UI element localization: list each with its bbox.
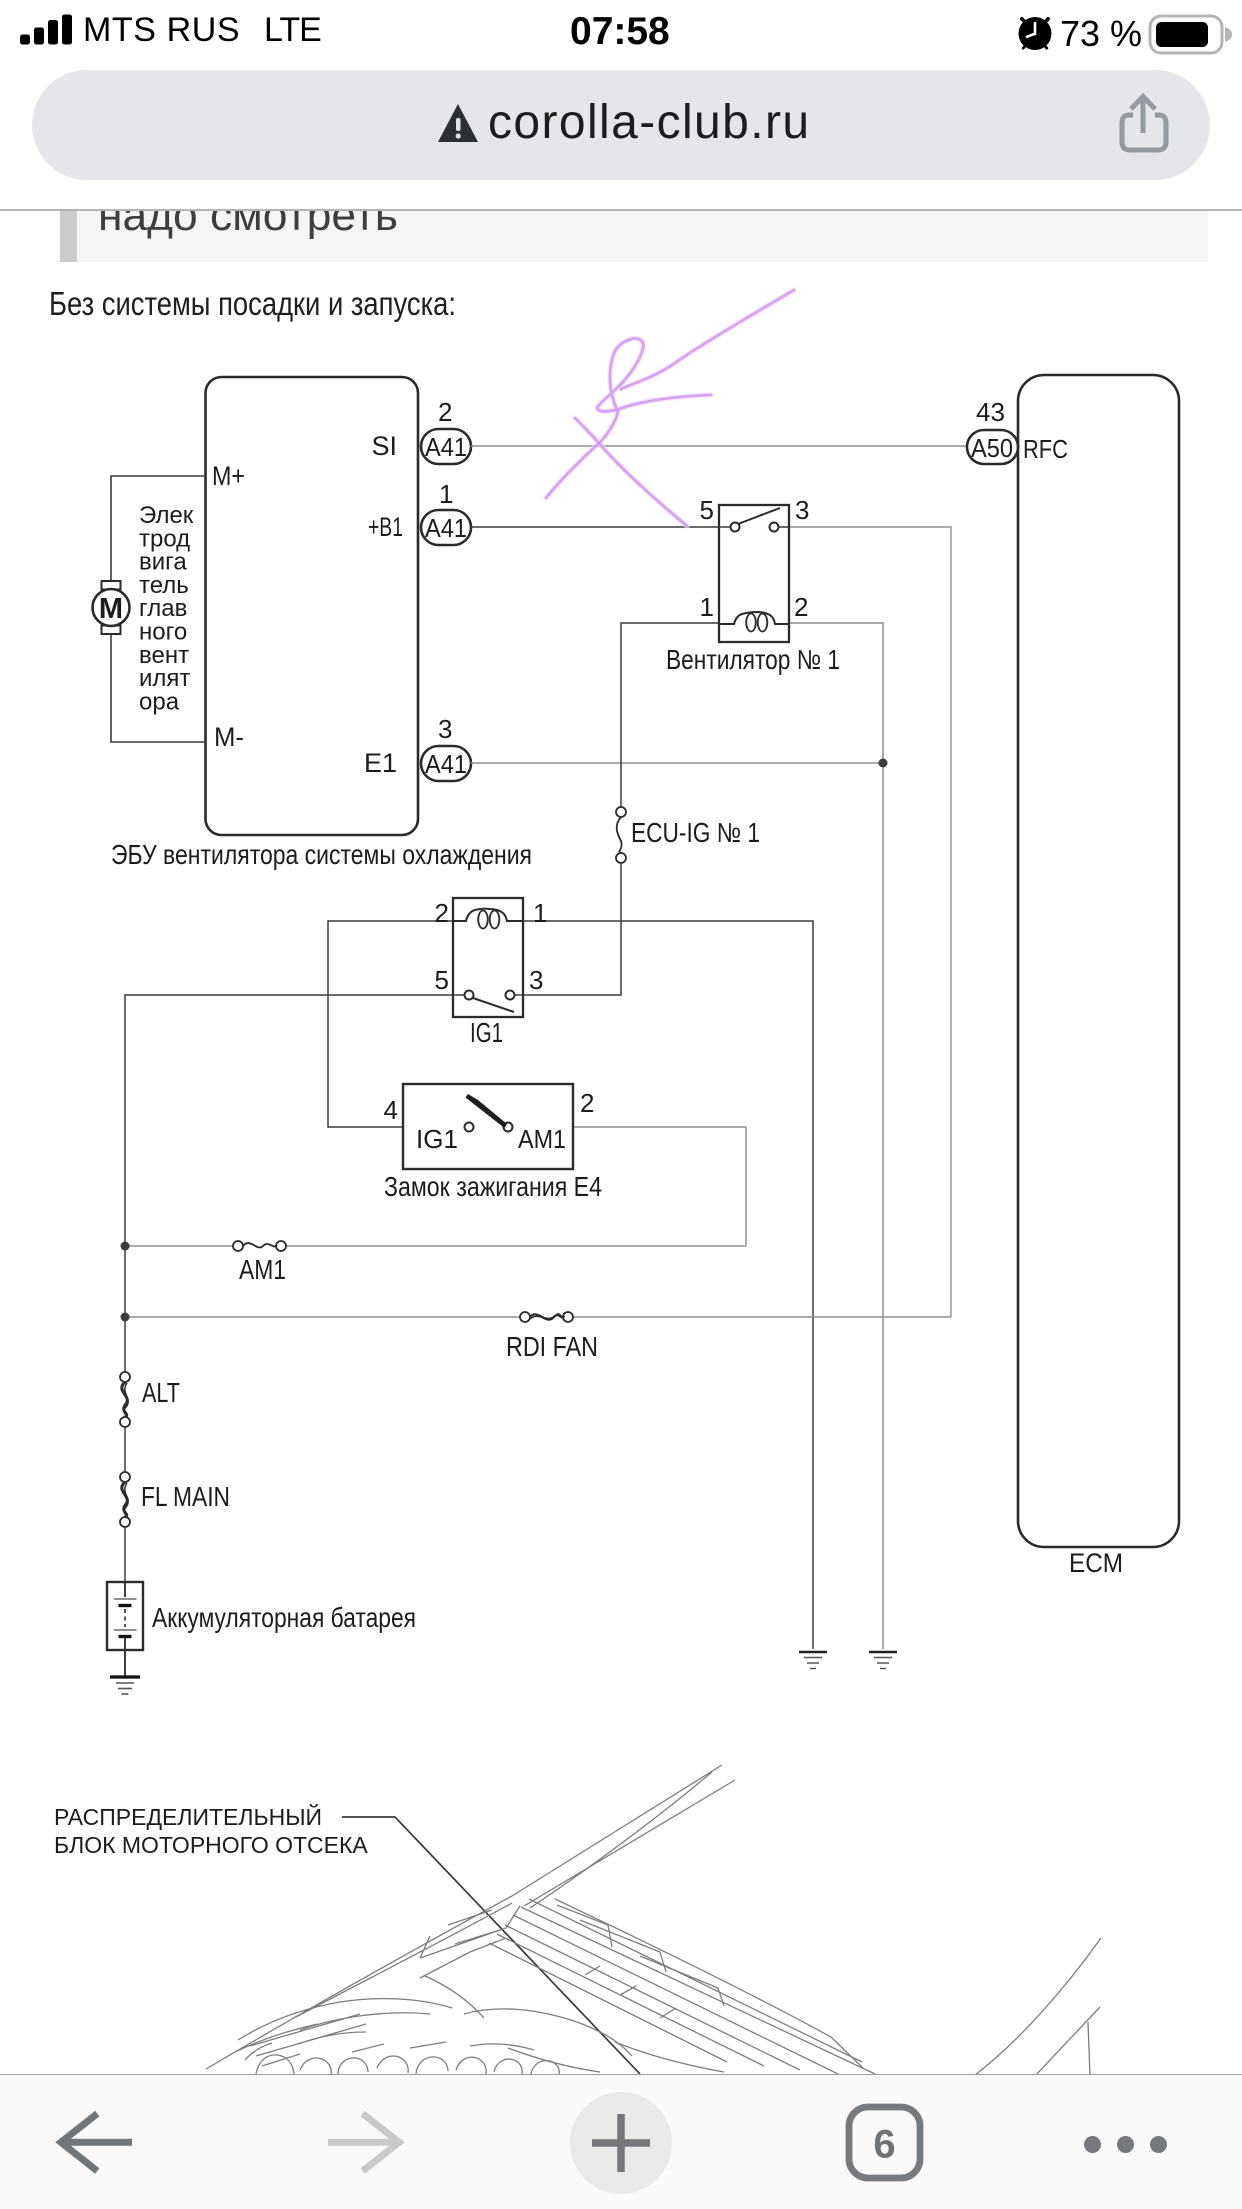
battery box — [107, 1582, 143, 1650]
svg-text:6: 6 — [873, 2123, 895, 2167]
leader line — [342, 1817, 640, 2074]
wire relay coil pin 2 to x883 down to ground — [789, 623, 883, 1649]
ignition contacts — [465, 1123, 474, 1132]
IG1 contact stubs — [453, 994, 523, 996]
svg-text:ECU-IG № 1: ECU-IG № 1 — [631, 817, 760, 848]
IG1 coil — [453, 909, 523, 921]
wire M+ from ECU to motor — [111, 476, 205, 581]
svg-text:RDI FAN: RDI FAN — [506, 1331, 598, 1362]
svg-text:M-: M- — [214, 722, 244, 752]
wire IG1 pin 5 to feeder x125 — [125, 995, 453, 1372]
connector A41 pin 2 (SI) — [421, 429, 471, 464]
connector A41 pin 1 (+B1) — [421, 510, 471, 545]
svg-text:RFC: RFC — [1023, 434, 1068, 464]
svg-text:БЛОК МОТОРНОГО ОТСЕКА: БЛОК МОТОРНОГО ОТСЕКА — [54, 1832, 368, 1858]
connector A50 pin 43 (RFC) — [967, 430, 1018, 464]
svg-text:43: 43 — [976, 397, 1005, 427]
fuse ECU-IG № 1 — [616, 807, 626, 817]
wire ignition pin 2 to AM1 row — [513, 1127, 746, 1246]
tabs button — [849, 2107, 920, 2178]
wire FL MAIN to battery — [124, 1527, 126, 1582]
wire AM1 row — [125, 1245, 233, 1247]
svg-text:1: 1 — [533, 898, 547, 928]
plus button — [570, 2092, 672, 2194]
wire IG1 coil pin 2 to ignition switch — [328, 921, 464, 1127]
wire fuse to IG1 relay pin 3 — [523, 863, 621, 995]
ground battery — [110, 1675, 140, 1678]
svg-text:ALT: ALT — [142, 1377, 180, 1408]
share icon — [1116, 88, 1172, 156]
svg-text:A41: A41 — [425, 515, 467, 543]
svg-text:Вентилятор № 1: Вентилятор № 1 — [666, 644, 840, 675]
IG1 switch arm — [473, 998, 514, 1012]
signal bars — [0, 0, 260, 60]
engine bay line art — [206, 1765, 1101, 2077]
wire SI to RFC (A50) — [471, 445, 967, 447]
svg-text:1: 1 — [439, 479, 453, 509]
svg-text:ЭБУ вентилятора системы охлажд: ЭБУ вентилятора системы охлаждения — [111, 839, 532, 870]
wire relay coil pin 1 to x621 down to fuse — [621, 623, 719, 807]
wire M- from motor to ECU — [111, 635, 205, 742]
svg-text:AM1: AM1 — [239, 1254, 286, 1285]
svg-text:+B1: +B1 — [368, 512, 403, 542]
svg-text:M: M — [99, 593, 123, 625]
svg-text:A41: A41 — [425, 434, 467, 462]
forward arrow (disabled) — [328, 2114, 399, 2171]
fuse AM1 — [233, 1241, 243, 1251]
svg-text:M+: M+ — [212, 461, 245, 491]
svg-text:Аккумуляторная батарея: Аккумуляторная батарея — [152, 1602, 416, 1633]
wire IG1 coil pin 1 to ground — [523, 921, 813, 1649]
address pill — [32, 70, 1210, 180]
wire RDI FAN row — [125, 1316, 520, 1318]
svg-text:ора: ора — [139, 688, 180, 715]
motor M (main fan motor) — [102, 581, 121, 590]
wire +B1 to fan relay pin 5 — [471, 526, 719, 528]
svg-text:E1: E1 — [364, 748, 397, 778]
svg-text:Замок зажигания E4: Замок зажигания E4 — [384, 1171, 602, 1202]
svg-text:IG1: IG1 — [416, 1124, 458, 1154]
junction x125 AM1 — [121, 1242, 130, 1251]
svg-text:3: 3 — [438, 714, 452, 744]
back arrow — [61, 2114, 132, 2171]
ECU box (fan cooling ECU) — [206, 377, 419, 835]
relay switch arm — [738, 508, 780, 524]
svg-text:2: 2 — [435, 898, 449, 928]
fusible link FL MAIN — [120, 1472, 130, 1482]
junction node E1 wire — [879, 759, 888, 768]
wire ALT to FL MAIN — [124, 1427, 126, 1472]
relay switch contacts — [731, 523, 740, 532]
ECM box — [1018, 375, 1179, 1547]
junction x125 RDI — [121, 1313, 130, 1322]
quote left bar — [60, 205, 77, 262]
svg-text:3: 3 — [795, 495, 809, 525]
ground x813 — [799, 1651, 827, 1654]
IG1 switch contacts — [465, 991, 474, 1000]
svg-text:Без системы посадки и запуска:: Без системы посадки и запуска: — [49, 285, 456, 322]
fusible link ALT — [120, 1372, 130, 1382]
warning triangle — [437, 102, 479, 146]
relay contact stubs — [719, 526, 789, 528]
svg-text:5: 5 — [435, 965, 449, 995]
svg-text:ECM: ECM — [1069, 1548, 1123, 1578]
battery plates — [124, 1582, 126, 1597]
hand-drawn purple scribble — [546, 290, 794, 526]
svg-text:3: 3 — [529, 965, 543, 995]
relay IG1 box — [453, 898, 523, 1017]
ignition switch box — [403, 1084, 573, 1169]
svg-text:2: 2 — [580, 1088, 594, 1118]
svg-text:4: 4 — [384, 1095, 398, 1125]
svg-text:AM1: AM1 — [518, 1124, 566, 1154]
more dots — [1084, 2136, 1101, 2153]
wire relay pin 3 to x951 down to RDI FAN row — [789, 527, 951, 1317]
alarm clock icon — [1014, 12, 1058, 56]
svg-text:2: 2 — [794, 592, 808, 622]
battery icon — [1146, 12, 1238, 58]
quote block background — [77, 205, 1208, 262]
ground x883 — [869, 1651, 897, 1654]
relay coil — [719, 612, 789, 624]
svg-text:SI: SI — [371, 431, 397, 461]
relay Вентилятор № 1 box — [719, 505, 789, 642]
svg-text:IG1: IG1 — [470, 1017, 503, 1048]
wire E1 to node — [471, 762, 883, 764]
svg-text:FL MAIN: FL MAIN — [141, 1481, 230, 1512]
svg-text:РАСПРЕДЕЛИТЕЛЬНЫЙ: РАСПРЕДЕЛИТЕЛЬНЫЙ — [54, 1803, 322, 1830]
svg-text:2: 2 — [438, 397, 452, 427]
fusible link RDI FAN — [520, 1312, 530, 1322]
svg-text:1: 1 — [700, 592, 714, 622]
ignition lever — [466, 1094, 508, 1128]
svg-text:A41: A41 — [425, 751, 467, 779]
connector A41 pin 3 (E1) — [421, 746, 471, 781]
svg-text:5: 5 — [700, 495, 714, 525]
svg-text:A50: A50 — [971, 435, 1013, 463]
